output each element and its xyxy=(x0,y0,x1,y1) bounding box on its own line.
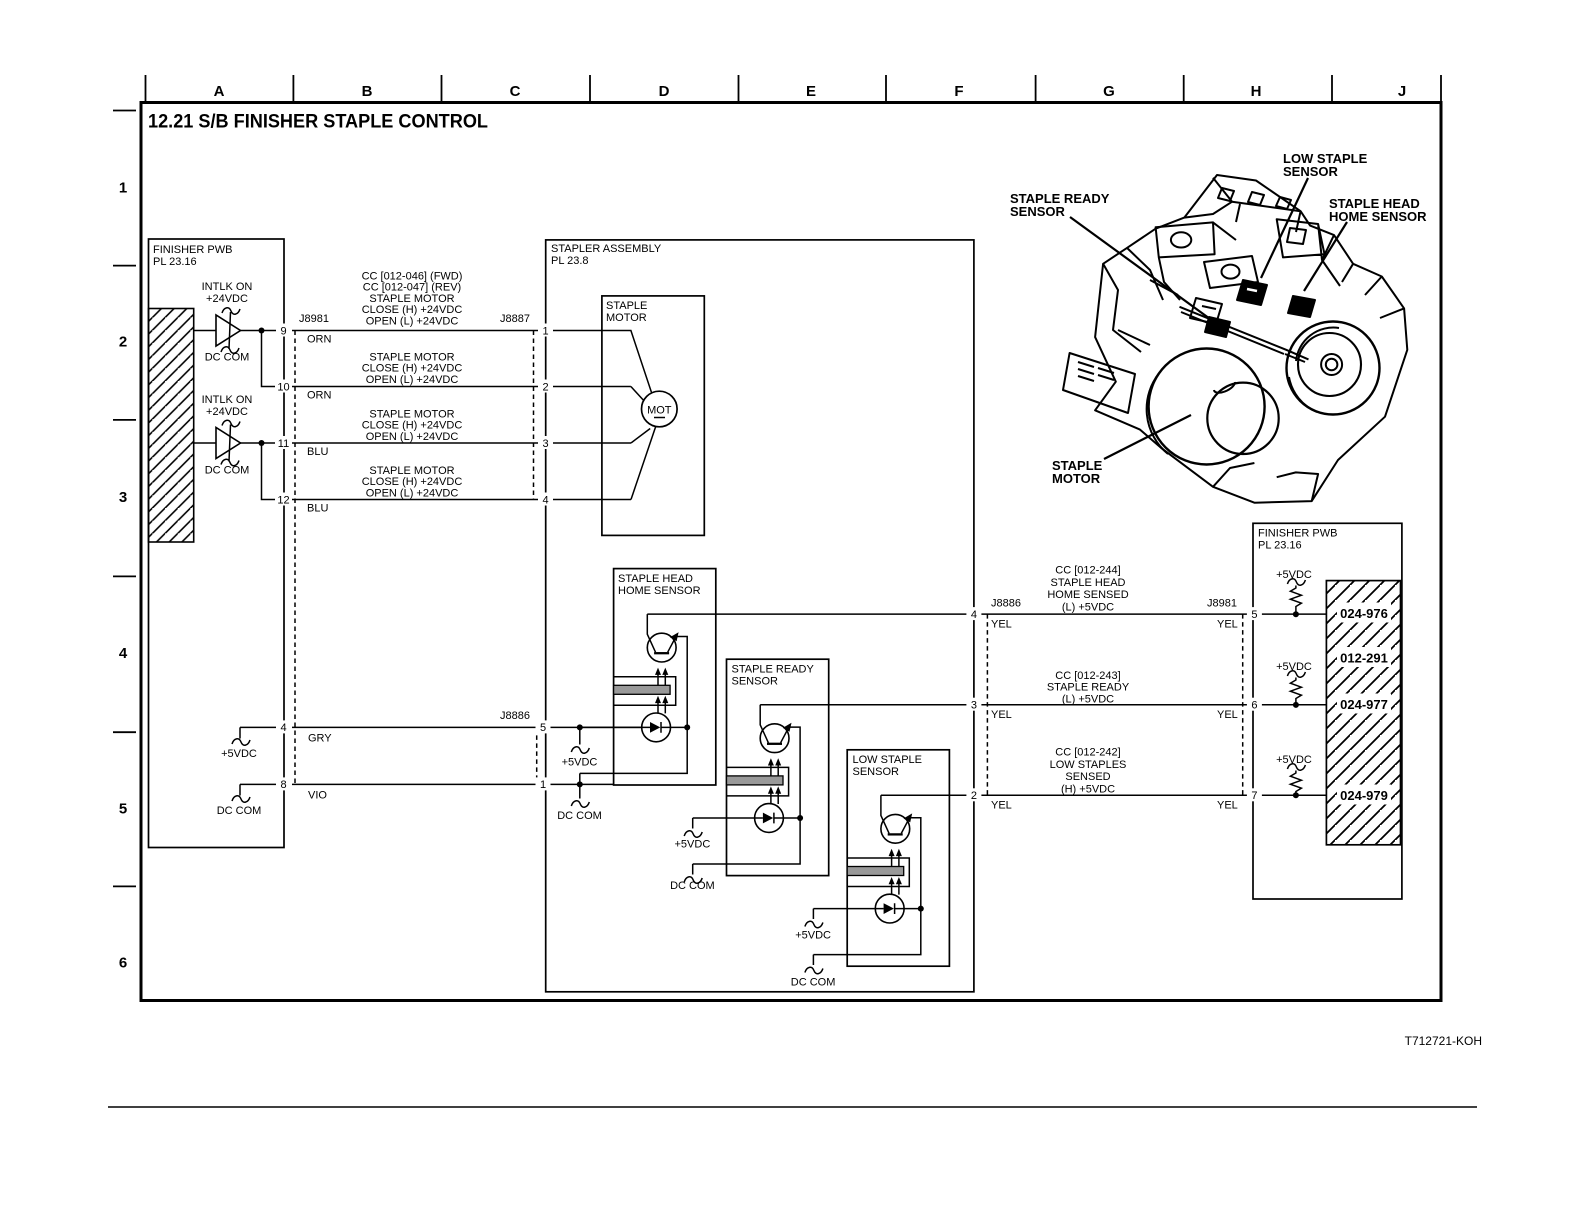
svg-text:LOW STAPLES: LOW STAPLES xyxy=(1050,759,1127,771)
svg-text:012-291: 012-291 xyxy=(1340,651,1388,666)
sensor2 DC COM stub xyxy=(684,864,702,883)
svg-text:4: 4 xyxy=(971,609,977,621)
svg-text:SENSED: SENSED xyxy=(1065,771,1110,783)
svg-text:DC COM: DC COM xyxy=(205,465,250,477)
row ruler ticks xyxy=(113,111,136,887)
body silhouette xyxy=(1095,175,1407,503)
svg-text:T712721-KOH: T712721-KOH xyxy=(1405,1034,1482,1048)
connector J8886 dashed line (left pair) xyxy=(536,727,538,784)
column ruler ticks xyxy=(146,75,1442,101)
svg-text:CLOSE (H) +24VDC: CLOSE (H) +24VDC xyxy=(362,304,463,316)
svg-text:CC [012-242]: CC [012-242] xyxy=(1055,747,1120,759)
pin number plates xyxy=(275,324,1262,802)
svg-text:STAPLER ASSEMBLY: STAPLER ASSEMBLY xyxy=(551,243,662,255)
svg-text:12.21 S/B FINISHER STAPLE CONT: 12.21 S/B FINISHER STAPLE CONTROL xyxy=(148,111,488,133)
svg-text:024-976: 024-976 xyxy=(1340,606,1388,621)
svg-text:(L) +5VDC: (L) +5VDC xyxy=(1062,694,1114,706)
svg-text:YEL: YEL xyxy=(1217,619,1238,631)
svg-text:MOT: MOT xyxy=(647,405,672,417)
svg-text:3: 3 xyxy=(542,438,548,450)
svg-text:SENSOR: SENSOR xyxy=(1010,204,1066,219)
motor MOT circle xyxy=(642,391,678,427)
sensor1 +5VDC stub xyxy=(577,724,583,730)
mid bracket with hole xyxy=(1204,256,1258,288)
svg-text:PL 23.16: PL 23.16 xyxy=(153,256,197,268)
CC note block: staple ready xyxy=(1047,670,1130,706)
shaft rod xyxy=(1180,307,1309,362)
svg-text:F: F xyxy=(954,83,963,100)
wire into buffer 1 xyxy=(194,330,216,332)
motor cylinder xyxy=(1149,349,1265,465)
svg-text:G: G xyxy=(1103,83,1115,100)
connector J8981 dashed line (left) xyxy=(294,331,296,785)
CC note block: low staples xyxy=(1050,747,1127,796)
ready sensor bracket xyxy=(1190,298,1222,324)
svg-text:SENSOR: SENSOR xyxy=(732,676,779,688)
svg-text:YEL: YEL xyxy=(991,619,1012,631)
harness note block 2 xyxy=(362,352,463,386)
DC COM stub (pin8) xyxy=(232,784,250,802)
harness note block top xyxy=(362,271,463,328)
row numbers xyxy=(119,180,128,972)
svg-text:6: 6 xyxy=(1251,700,1257,712)
wire pin9 xyxy=(241,330,552,332)
svg-text:STAPLE HEAD: STAPLE HEAD xyxy=(618,573,693,585)
svg-text:10: 10 xyxy=(277,382,289,394)
svg-text:11: 11 xyxy=(278,438,289,450)
svg-text:4: 4 xyxy=(280,722,286,734)
svg-text:PL 23.8: PL 23.8 xyxy=(551,255,589,267)
svg-text:4: 4 xyxy=(542,495,548,507)
pin numbers: left PWB J8981 xyxy=(277,326,289,792)
svg-text:J8886: J8886 xyxy=(991,598,1021,610)
svg-text:STAPLE READY: STAPLE READY xyxy=(1047,682,1130,694)
svg-text:YEL: YEL xyxy=(991,800,1012,812)
svg-text:CC [012-243]: CC [012-243] xyxy=(1055,670,1120,682)
svg-text:PL 23.16: PL 23.16 xyxy=(1258,540,1302,552)
svg-text:+5VDC: +5VDC xyxy=(795,930,831,942)
drive wheel xyxy=(1287,322,1380,415)
pin numbers: J8887 xyxy=(540,326,549,792)
svg-text:+24VDC: +24VDC xyxy=(206,406,248,418)
svg-text:ORN: ORN xyxy=(307,390,332,402)
svg-text:7: 7 xyxy=(1251,790,1257,802)
svg-text:2: 2 xyxy=(119,334,127,351)
svg-text:FINISHER PWB: FINISHER PWB xyxy=(1258,528,1337,540)
svg-text:E: E xyxy=(806,83,816,100)
wire into buffer 2 xyxy=(194,442,216,444)
svg-text:STAPLE: STAPLE xyxy=(606,300,647,312)
svg-text:YEL: YEL xyxy=(991,709,1012,721)
svg-text:CC [012-047] (REV): CC [012-047] (REV) xyxy=(363,282,461,294)
svg-text:OPEN (L) +24VDC: OPEN (L) +24VDC xyxy=(366,315,459,327)
svg-text:3: 3 xyxy=(971,700,977,712)
svg-text:+5VDC: +5VDC xyxy=(675,839,711,851)
net tag 024-979 xyxy=(1337,785,1391,805)
svg-text:1: 1 xyxy=(542,326,548,338)
sensor1 DC COM stub xyxy=(577,781,583,787)
ribbed pallet xyxy=(1063,353,1135,413)
signal wire: low staples sensed xyxy=(881,794,1327,796)
svg-text:CLOSE (H) +24VDC: CLOSE (H) +24VDC xyxy=(362,476,463,488)
harness note block 4 xyxy=(362,465,463,499)
finisher pwb (left) box xyxy=(149,239,285,848)
svg-text:5: 5 xyxy=(1251,609,1257,621)
right top block xyxy=(1277,219,1325,260)
column letters xyxy=(214,83,1407,100)
svg-text:1: 1 xyxy=(119,180,127,197)
svg-text:6: 6 xyxy=(119,955,127,972)
svg-text:(L) +5VDC: (L) +5VDC xyxy=(1062,601,1114,613)
svg-text:YEL: YEL xyxy=(1217,800,1238,812)
svg-text:12: 12 xyxy=(277,495,289,507)
svg-text:A: A xyxy=(214,83,225,100)
svg-text:1: 1 xyxy=(540,779,546,791)
svg-text:ORN: ORN xyxy=(307,334,332,346)
svg-text:D: D xyxy=(659,83,670,100)
svg-text:STAPLE MOTOR: STAPLE MOTOR xyxy=(369,352,454,364)
svg-text:+24VDC: +24VDC xyxy=(206,293,248,305)
+5VDC stub (pin4) xyxy=(232,727,250,745)
svg-text:3: 3 xyxy=(119,489,127,506)
junction dot xyxy=(259,328,265,334)
svg-text:CLOSE (H) +24VDC: CLOSE (H) +24VDC xyxy=(362,363,463,375)
stapler assembly box xyxy=(546,240,974,992)
svg-text:YEL: YEL xyxy=(1217,709,1238,721)
connector J8981 dashed line (right) xyxy=(1242,614,1244,795)
svg-text:+5VDC: +5VDC xyxy=(562,757,598,769)
net tag 024-977 xyxy=(1337,694,1391,714)
svg-text:J8981: J8981 xyxy=(1207,598,1237,610)
svg-text:OPEN (L) +24VDC: OPEN (L) +24VDC xyxy=(366,431,459,443)
staple ready sensor Q2 xyxy=(693,659,829,875)
svg-text:MOTOR: MOTOR xyxy=(1052,471,1101,486)
svg-text:STAPLE MOTOR: STAPLE MOTOR xyxy=(369,293,454,305)
svg-text:STAPLE MOTOR: STAPLE MOTOR xyxy=(369,465,454,477)
svg-text:HOME SENSOR: HOME SENSOR xyxy=(618,585,701,597)
svg-text:(H) +5VDC: (H) +5VDC xyxy=(1061,783,1115,795)
CC note block: staple head home xyxy=(1047,565,1128,614)
svg-text:H: H xyxy=(1251,83,1262,100)
wire pin4 GRY xyxy=(240,726,642,728)
svg-text:+5VDC: +5VDC xyxy=(221,748,257,760)
svg-text:CLOSE (H) +24VDC: CLOSE (H) +24VDC xyxy=(362,420,463,432)
top flag plate xyxy=(1184,178,1300,222)
svg-text:8: 8 xyxy=(280,779,286,791)
svg-text:FINISHER PWB: FINISHER PWB xyxy=(153,244,232,256)
connector J8887 dashed line xyxy=(533,331,535,500)
main frame xyxy=(141,103,1441,1001)
svg-text:DC COM: DC COM xyxy=(791,977,836,989)
staple head home sensor Q1 xyxy=(580,569,716,785)
svg-text:4: 4 xyxy=(119,645,128,662)
svg-text:2: 2 xyxy=(971,790,977,802)
YEL labels xyxy=(991,619,1238,812)
svg-text:MOTOR: MOTOR xyxy=(606,312,647,324)
svg-text:BLU: BLU xyxy=(307,446,328,458)
svg-text:OPEN (L) +24VDC: OPEN (L) +24VDC xyxy=(366,487,459,499)
svg-text:B: B xyxy=(362,83,373,100)
svg-text:BLU: BLU xyxy=(307,503,328,515)
svg-text:J8886: J8886 xyxy=(500,710,530,722)
svg-text:J8887: J8887 xyxy=(500,313,530,325)
base foot xyxy=(1213,463,1318,501)
pin numbers: right PWB J8981 xyxy=(1251,609,1257,802)
pin numbers: assembly right / J8886 xyxy=(971,609,977,802)
interlock switch squiggle 1 xyxy=(221,308,240,353)
svg-text:STAPLE READY: STAPLE READY xyxy=(732,664,815,676)
interlock switch squiggle 2 xyxy=(221,420,240,465)
svg-text:J8981: J8981 xyxy=(299,313,329,325)
low staple sensor Q3 xyxy=(813,750,949,966)
svg-text:024-979: 024-979 xyxy=(1340,788,1388,803)
svg-text:5: 5 xyxy=(540,722,546,734)
svg-text:CC [012-046] (FWD): CC [012-046] (FWD) xyxy=(362,271,463,283)
svg-text:INTLK ON: INTLK ON xyxy=(202,394,253,406)
harness note block 3 xyxy=(362,408,463,442)
svg-text:5: 5 xyxy=(119,801,127,818)
svg-text:VIO: VIO xyxy=(308,790,327,802)
signal wire: staple head home sensed xyxy=(647,613,1326,615)
sensor3 +5VDC stub xyxy=(805,909,823,928)
branch to pin10 xyxy=(262,331,631,387)
staple head home sensor block xyxy=(1288,296,1315,317)
svg-text:024-977: 024-977 xyxy=(1340,697,1388,712)
wire pin11 xyxy=(241,442,632,444)
svg-text:STAPLE MOTOR: STAPLE MOTOR xyxy=(369,408,454,420)
hatched plate (left PWB) xyxy=(149,309,194,543)
staple motor box xyxy=(602,296,704,536)
svg-text:DC COM: DC COM xyxy=(217,805,262,817)
sensor3 DC COM stub xyxy=(805,955,823,974)
svg-text:C: C xyxy=(510,83,521,100)
svg-text:DC COM: DC COM xyxy=(670,880,715,892)
net tag 024-976 xyxy=(1337,603,1391,623)
svg-text:DC COM: DC COM xyxy=(205,352,250,364)
interlock buffer U1 xyxy=(216,315,241,346)
finisher pwb (right) box xyxy=(1253,523,1402,899)
interlock buffer U2 xyxy=(216,428,241,459)
inner frame lines xyxy=(1103,222,1236,352)
connector J8886 dashed line (right) xyxy=(986,614,988,795)
svg-text:LOW STAPLE: LOW STAPLE xyxy=(853,754,922,766)
svg-text:SENSOR: SENSOR xyxy=(853,766,900,778)
svg-text:SENSOR: SENSOR xyxy=(1283,164,1339,179)
signal wire: staple ready xyxy=(760,704,1326,706)
wire pin8 VIO xyxy=(240,783,614,785)
stapler assembly pictorial xyxy=(1063,175,1407,503)
net tag 012-291 xyxy=(1337,647,1391,667)
svg-text:GRY: GRY xyxy=(308,733,332,745)
svg-text:DC COM: DC COM xyxy=(557,810,602,822)
svg-text:HOME SENSOR: HOME SENSOR xyxy=(1329,209,1427,224)
sensor2 +5VDC stub xyxy=(684,818,702,837)
footer rule xyxy=(108,1106,1477,1108)
motor wires 1-4 xyxy=(551,331,652,395)
svg-text:HOME SENSED: HOME SENSED xyxy=(1047,589,1128,601)
svg-text:2: 2 xyxy=(542,382,548,394)
hatched plate (right PWB) xyxy=(1326,581,1400,845)
svg-text:J: J xyxy=(1398,83,1406,100)
branch to pin12 xyxy=(262,443,632,500)
svg-text:CC [012-244]: CC [012-244] xyxy=(1055,565,1120,577)
junction dot xyxy=(259,440,265,446)
svg-text:OPEN (L) +24VDC: OPEN (L) +24VDC xyxy=(366,374,459,386)
svg-text:INTLK ON: INTLK ON xyxy=(202,281,253,293)
low staple sensor block xyxy=(1237,280,1267,305)
svg-text:9: 9 xyxy=(280,326,286,338)
svg-text:STAPLE HEAD: STAPLE HEAD xyxy=(1051,577,1126,589)
upper-left bracket xyxy=(1156,222,1215,300)
